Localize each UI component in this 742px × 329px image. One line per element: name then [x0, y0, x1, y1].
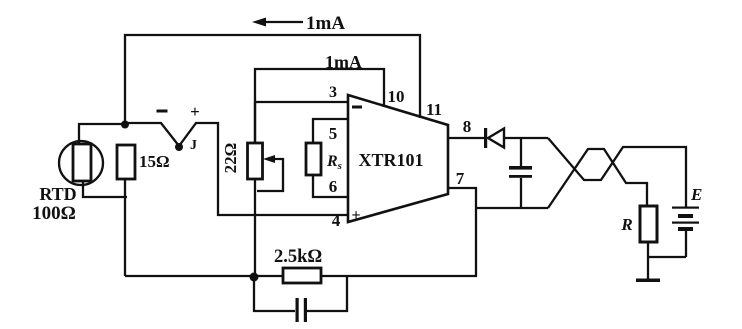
svg-text:22Ω: 22Ω: [221, 143, 240, 174]
wire Rs loop pin 5: [313, 119, 348, 143]
resistor RTD body: [73, 144, 91, 181]
wire top 1mA feedback rail: [125, 35, 420, 124]
wire potentiometer down to bottom node: [254, 179, 256, 277]
resistor 2.5k body: [283, 268, 321, 283]
node junction dot (top left): [121, 121, 129, 129]
svg-text:11: 11: [426, 100, 442, 119]
svg-text:RTD: RTD: [39, 184, 76, 204]
svg-text:10: 10: [388, 87, 405, 106]
svg-text:J: J: [190, 138, 197, 153]
wire thermocouple branch to pin 4: [125, 123, 348, 215]
wire R bottom to ground: [647, 242, 649, 279]
ground: [636, 279, 660, 283]
svg-text:E: E: [690, 185, 702, 204]
svg-text:7: 7: [456, 169, 465, 188]
wire 15 ohm down to bottom rail: [124, 179, 126, 276]
svg-text:100Ω: 100Ω: [32, 203, 76, 224]
svg-text:3: 3: [329, 84, 337, 101]
diode D1: [484, 128, 504, 148]
wire twisted pair upper conductor: [548, 138, 686, 207]
svg-text:Rs: Rs: [326, 153, 342, 172]
capacitor (bottom) left lead: [254, 277, 295, 311]
capacitor (right) plates: [509, 166, 532, 178]
resistor Rs body: [306, 143, 321, 175]
capacitor (bottom) plates: [296, 298, 308, 322]
wire RTD bottom: [83, 180, 127, 197]
wire pin 3 input: [255, 101, 348, 103]
svg-text:1mA: 1mA: [325, 52, 362, 72]
capacitor (bottom) right lead: [307, 277, 347, 311]
wire second 1mA rail to pin 10: [255, 69, 384, 143]
svg-text:15Ω: 15Ω: [139, 152, 170, 171]
svg-text:5: 5: [329, 124, 338, 143]
resistor R body: [640, 206, 657, 242]
svg-text:1mA: 1mA: [306, 13, 345, 34]
capacitor (right) bottom lead: [520, 178, 522, 208]
label minus (thermocouple): [157, 110, 168, 113]
wire bottom rail left: [125, 275, 283, 277]
svg-text:4: 4: [332, 211, 341, 230]
wire RTD top: [79, 124, 125, 146]
RTD circle: [59, 141, 103, 185]
svg-text:XTR101: XTR101: [358, 150, 423, 170]
wire pin 8 to diode: [448, 137, 484, 139]
svg-text:R: R: [620, 215, 632, 234]
node bottom junction dot: [250, 273, 259, 282]
wire bottom rail right up to pin 7: [321, 188, 476, 276]
wire pin 7 branch to line: [476, 207, 548, 209]
resistor 15 ohm body: [117, 145, 135, 179]
svg-text:+: +: [351, 207, 360, 224]
label minus input: [352, 106, 362, 109]
battery E: [672, 207, 699, 258]
capacitor (right) top lead: [520, 138, 522, 166]
current arrow 1mA (top): [252, 18, 303, 27]
potentiometer 22 ohm body: [248, 143, 263, 179]
svg-text:2.5kΩ: 2.5kΩ: [274, 247, 322, 267]
wire diode to twisted pair: [504, 137, 548, 139]
wire potentiometer stem: [254, 102, 256, 143]
potentiometer wiper arrow: [257, 155, 283, 191]
svg-text:+: +: [190, 102, 200, 121]
op-amp U1 XTR101 body: [348, 95, 448, 222]
wire twisted pair lower conductor: [548, 149, 647, 208]
wire Rs loop pin 6: [313, 175, 348, 197]
node J thermocouple junction dot: [175, 143, 183, 151]
wire battery return: [648, 256, 686, 258]
svg-text:6: 6: [329, 177, 338, 196]
svg-text:8: 8: [463, 117, 472, 136]
